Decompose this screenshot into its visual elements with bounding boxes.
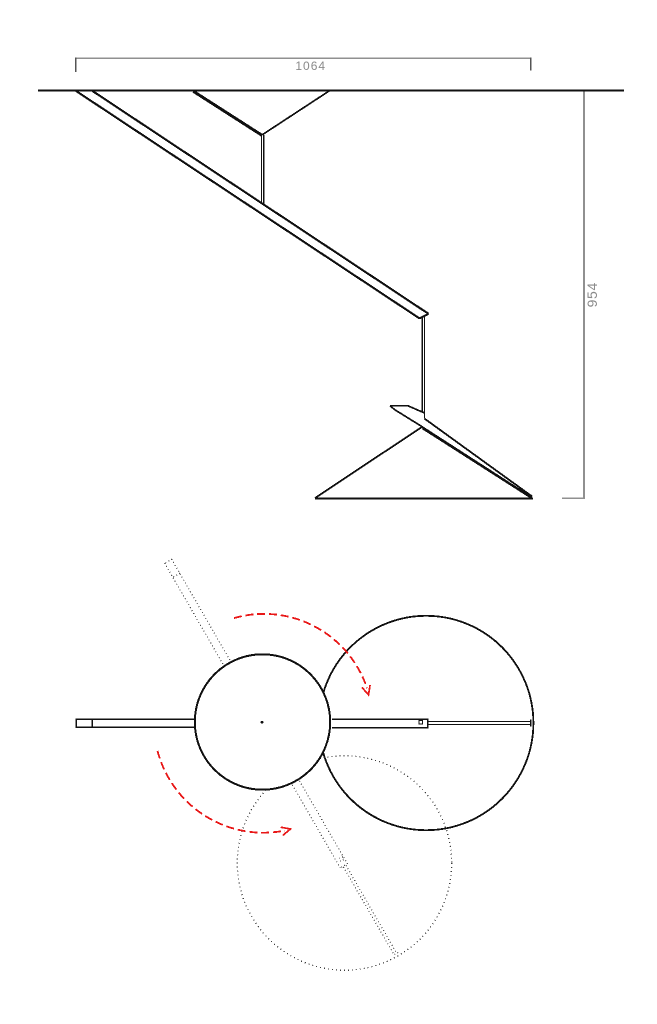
narrow extension top: [428, 720, 530, 722]
arm marker square: [419, 720, 422, 723]
dim tick right: [530, 57, 532, 70]
dimension line 954 (vertical): [583, 92, 585, 499]
rod upper line: [93, 91, 429, 314]
central circle (canopy disc): [195, 654, 330, 789]
dotted narrow extension top: [346, 865, 397, 953]
dotted arm left bottom line: [165, 563, 224, 666]
rod end cap: [420, 314, 429, 319]
arm left divider: [91, 719, 93, 728]
cone left side: [315, 427, 422, 498]
dotted narrow extension cap: [392, 952, 398, 955]
dotted arm left end cap: [164, 559, 172, 564]
arm right top line: [332, 718, 428, 720]
bracket vertical left: [260, 135, 262, 204]
stem right line: [424, 317, 426, 419]
ceiling line: [38, 90, 624, 92]
bar top edge left: [408, 406, 425, 413]
stem left line: [421, 318, 423, 413]
arm left end cap: [75, 719, 77, 728]
bar bottom edge left: [395, 410, 422, 427]
bar bottom edge right: [422, 427, 532, 498]
narrow extension cap: [530, 720, 532, 727]
cone right side: [422, 428, 532, 498]
dotted narrow extension bottom: [343, 867, 394, 955]
dotted arm right top line: [299, 781, 347, 864]
V-bracket left leg: [193, 91, 262, 135]
arm left top line: [76, 718, 195, 720]
rod lower line: [76, 91, 419, 318]
arm right cap: [427, 719, 429, 729]
dotted arm (rotated solid arm): [164, 559, 399, 957]
arm right bottom line: [332, 727, 428, 729]
dim tick bottom: [562, 497, 585, 499]
narrow extension bottom: [428, 723, 530, 725]
dotted arm left divider: [173, 573, 180, 577]
bar tip cap: [390, 406, 395, 410]
bracket vertical right: [263, 135, 265, 205]
red rotation arc upper: [234, 614, 367, 688]
red arrowhead upper: [362, 685, 370, 695]
bar tip top edge: [390, 405, 408, 407]
svg-text:1064: 1064: [295, 59, 326, 73]
big circle right: [319, 616, 533, 830]
red rotation arc lower: [158, 751, 285, 833]
dim tick left: [75, 57, 77, 72]
center dot: [261, 721, 264, 724]
dotted arm right bottom line: [292, 785, 340, 868]
bar long edge right: [425, 419, 533, 497]
solid arm: [76, 719, 531, 729]
V-bracket right leg: [262, 91, 329, 135]
red arrowhead lower: [281, 827, 291, 835]
cone base: [315, 498, 533, 500]
arm left bottom line: [76, 726, 195, 728]
dotted arm right cap: [340, 863, 348, 868]
svg-text:954: 954: [584, 282, 600, 307]
dotted marker square: [339, 857, 344, 862]
dimension line 1064 (horizontal): [76, 57, 531, 59]
dotted circle (rotated big circle): [237, 756, 451, 970]
dotted arm left top line: [172, 559, 231, 662]
